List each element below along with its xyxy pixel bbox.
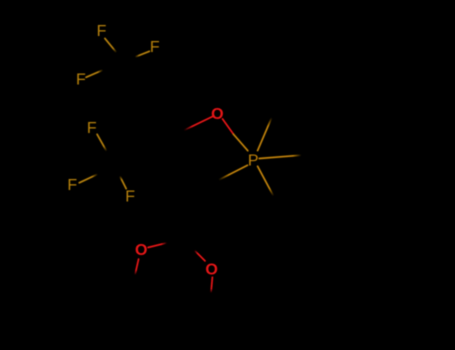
wire F3-C6 — [86, 70, 103, 77]
svg-text:F: F — [76, 72, 86, 89]
wire P2-C3 — [219, 165, 248, 180]
svg-text:P: P — [248, 153, 259, 170]
wire Oacetal-right to acetal C — [194, 250, 205, 261]
wire F4-C7 — [97, 134, 107, 151]
wire O1-C5 — [184, 116, 213, 130]
svg-text:F: F — [150, 39, 160, 56]
wire P2-CH3 right — [259, 155, 301, 158]
wire Oacetal-left to ethyl CH2 — [135, 259, 139, 275]
wire F2-C6 — [135, 51, 149, 57]
wire P2-CH3 down — [258, 166, 274, 196]
svg-text:F: F — [125, 189, 135, 206]
wire F1-C6 — [105, 38, 117, 52]
wire O1-P2 red half — [223, 119, 234, 134]
wire Oacetal-left to acetal C — [148, 243, 167, 248]
svg-text:F: F — [67, 177, 77, 194]
wire Oacetal-right to ethyl CH2 — [211, 277, 212, 293]
svg-text:F: F — [87, 120, 97, 137]
wire O1-P2 orange half — [234, 134, 248, 150]
svg-text:O: O — [205, 262, 217, 279]
svg-text:O: O — [211, 106, 223, 123]
svg-text:O: O — [135, 242, 147, 259]
wire F6-C7 — [120, 176, 126, 189]
wire P2-CH3 up — [258, 118, 272, 151]
svg-text:F: F — [97, 23, 107, 40]
wire F5-C7 — [79, 174, 98, 183]
